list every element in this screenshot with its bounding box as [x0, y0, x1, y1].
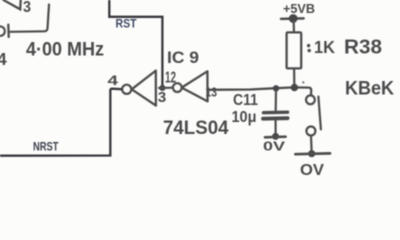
wire RST trace — [109, 0, 162, 85]
wire resistor to node — [293, 69, 295, 84]
junction node (RST / pin 12 / pin 3) — [159, 85, 165, 91]
capacitor C11 — [263, 112, 288, 119]
wire crystal to gate — [10, 5, 49, 32]
switch lever — [318, 97, 321, 130]
inverter U1B (pins 3,4) — [122, 71, 156, 106]
svg-text:R38: R38 — [344, 37, 382, 59]
svg-text:C11: C11 — [233, 92, 258, 109]
switch S1 contact top — [306, 95, 315, 104]
gate fragment top-left — [4, 0, 21, 9]
svg-text:10μ: 10μ — [232, 109, 257, 126]
wire switch to ground — [310, 136, 313, 151]
node C11 branch — [273, 85, 279, 91]
svg-text:3: 3 — [23, 0, 31, 16]
svg-text:IC 9: IC 9 — [167, 48, 199, 67]
svg-text:NRST: NRST — [33, 140, 59, 154]
svg-text:74LS04: 74LS04 — [163, 117, 229, 139]
svg-text:4: 4 — [108, 73, 119, 88]
svg-text:4·00 MHz: 4·00 MHz — [26, 40, 104, 61]
label :1K — [307, 37, 335, 57]
svg-text:KBeK: KBeK — [345, 78, 394, 99]
svg-text:3: 3 — [158, 90, 167, 106]
resistor R38 — [287, 32, 302, 68]
wire power to resistor — [293, 20, 296, 32]
wire pin 4 to NRST — [0, 89, 122, 156]
ground (switch) — [295, 150, 330, 157]
svg-text:RST: RST — [116, 18, 137, 31]
stray ink speck — [302, 81, 304, 83]
svg-text:4: 4 — [0, 49, 7, 69]
svg-text:13: 13 — [206, 86, 218, 100]
crystal X1 (cut at edge) — [0, 26, 5, 36]
wire node to bubble — [159, 87, 173, 90]
wire node to cap — [275, 90, 277, 111]
svg-text:0V: 0V — [263, 139, 285, 154]
switch S1 contact bottom — [306, 127, 315, 136]
svg-text:+5VB: +5VB — [283, 1, 315, 16]
junction node (resistor/switch) — [291, 84, 298, 91]
power rail bar — [281, 17, 304, 20]
wire cap to ground — [275, 121, 277, 135]
svg-text:OV: OV — [300, 162, 325, 178]
power rail dot — [289, 14, 298, 23]
ground (cap) — [265, 133, 286, 140]
wire pin13 to switch — [208, 87, 311, 95]
svg-text:1K: 1K — [314, 37, 335, 57]
inverter U1A (pins 13,12) — [173, 71, 208, 101]
